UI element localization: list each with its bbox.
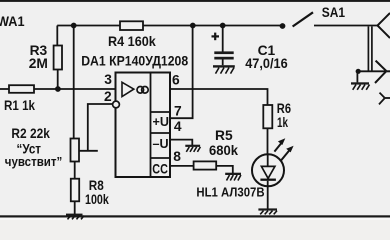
wire: R3 top stub — [56, 26, 58, 46]
wire: pin 6 output to R6 — [170, 89, 268, 105]
LED HL1 — [252, 154, 284, 186]
node: switch contact — [280, 23, 286, 29]
svg-text:–U: –U — [153, 137, 169, 151]
resistor R1 — [9, 85, 34, 93]
capacitor C1 — [222, 26, 224, 52]
connector pin arrow — [375, 61, 390, 83]
pin 2 inverting bubble — [113, 101, 120, 108]
svg-text:DA1 КР140УД1208: DA1 КР140УД1208 — [81, 54, 188, 69]
svg-text:100k: 100k — [85, 192, 109, 207]
junction dots — [55, 23, 361, 92]
wire: R2 to R8 — [74, 162, 76, 179]
C1 plus sign — [212, 33, 220, 41]
wire: R1 to op-amp pin 3 — [34, 88, 116, 90]
resistor R8 — [71, 179, 79, 202]
wire: R8 to ground — [74, 201, 76, 214]
svg-text:7: 7 — [174, 103, 182, 118]
connector X1 socket top — [378, 13, 390, 38]
wire: R3 bottom to input wire — [57, 70, 59, 90]
connector pin arrow lower — [379, 93, 390, 105]
ground below C1 — [213, 65, 235, 73]
resistor R6 — [263, 105, 272, 128]
svg-text:2: 2 — [104, 89, 112, 104]
ground below R8 — [66, 214, 84, 220]
wire: divider column from top rail to R2 — [73, 26, 75, 139]
op-amp DA1 box — [116, 73, 171, 178]
wire: pin 8 CC to R5 — [170, 165, 194, 167]
svg-text:CC: CC — [152, 161, 168, 176]
wire: minus return at connector — [359, 70, 386, 72]
svg-text:+U: +U — [153, 115, 169, 129]
node: +U rail junction — [190, 23, 196, 29]
svg-text:3: 3 — [104, 72, 112, 87]
svg-text:R6: R6 — [277, 101, 291, 116]
LED arrow 2 — [281, 146, 294, 161]
svg-text:R4 160k: R4 160k — [108, 34, 156, 49]
wire: top supply rail to switch — [143, 25, 283, 27]
svg-text:R5: R5 — [215, 128, 233, 143]
op-amp triangle symbol — [122, 82, 134, 96]
ground at connector — [351, 82, 370, 90]
op-amp infinity symbol — [137, 87, 148, 94]
svg-text:R8: R8 — [89, 178, 104, 193]
svg-text:4: 4 — [174, 119, 182, 134]
wire: R2 wiper tap — [79, 150, 98, 152]
wire: pin 7 +U to top rail — [170, 26, 193, 119]
ground below LED — [258, 208, 277, 214]
ground at R5 — [225, 173, 241, 181]
wire: pin 4 -U to ground — [170, 140, 192, 145]
wire: wiper to pin 2 — [88, 104, 113, 151]
LED arrow 1 — [274, 138, 285, 151]
wire: stub to right ground — [356, 71, 358, 82]
wire: antenna input through R1 — [0, 88, 9, 90]
wire: top supply rail left segment — [57, 25, 120, 27]
resistor R5 — [194, 161, 217, 169]
svg-text:47,0/16: 47,0/16 — [245, 56, 288, 71]
resistor R3 — [54, 46, 62, 70]
svg-text:WA1: WA1 — [0, 14, 25, 30]
wire: switch to connector — [314, 25, 378, 27]
top border frame line — [0, 0, 390, 2]
ground at pin 4 — [185, 145, 200, 152]
svg-text:SA1: SA1 — [322, 5, 346, 20]
svg-text:чувствит”: чувствит” — [5, 154, 63, 169]
switch SA1 lever — [293, 12, 313, 26]
svg-text:R1 1k: R1 1k — [4, 98, 35, 113]
node: divider top junction — [71, 23, 77, 29]
bottom border frame line — [0, 215, 390, 217]
resistor R4 — [120, 21, 143, 30]
wire: R5 to ground — [216, 166, 233, 173]
wire: R6 to LED — [267, 128, 269, 154]
svg-text:HL1 АЛ307В: HL1 АЛ307В — [196, 185, 264, 200]
connector body double lines — [368, 27, 372, 71]
svg-text:8: 8 — [173, 149, 181, 164]
svg-text:2M: 2M — [29, 56, 48, 71]
svg-text:6: 6 — [172, 73, 180, 88]
svg-text:680k: 680k — [209, 143, 238, 158]
svg-text:1k: 1k — [277, 115, 288, 130]
svg-text:R2 22k: R2 22k — [11, 126, 50, 141]
node: R3 bottom junction — [55, 86, 61, 92]
node: C1 junction — [220, 23, 226, 29]
node: minus return junction — [356, 69, 361, 74]
potentiometer R2 — [71, 139, 80, 162]
